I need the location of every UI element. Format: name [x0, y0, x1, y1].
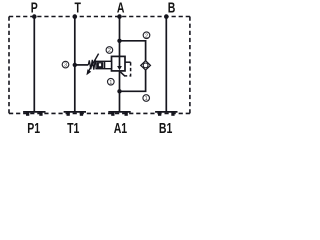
- svg-text:B1: B1: [159, 119, 172, 135]
- svg-text:1: 1: [109, 80, 112, 86]
- svg-text:A: A: [117, 0, 125, 16]
- svg-text:P1: P1: [27, 119, 40, 135]
- svg-text:1: 1: [145, 96, 148, 102]
- svg-text:T: T: [74, 0, 80, 16]
- svg-text:A1: A1: [114, 119, 127, 135]
- svg-text:P: P: [31, 0, 38, 16]
- svg-text:2: 2: [108, 48, 111, 54]
- svg-text:2: 2: [145, 33, 148, 39]
- svg-text:T1: T1: [67, 119, 79, 135]
- svg-text:3: 3: [64, 63, 67, 69]
- svg-text:B: B: [168, 0, 176, 16]
